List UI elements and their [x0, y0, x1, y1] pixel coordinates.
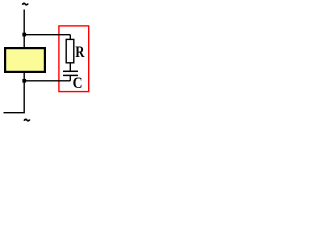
svg-text:C: C	[73, 75, 83, 92]
background	[0, 0, 93, 129]
wire: capacitor bottom lead	[69, 76, 71, 81]
resistor R body	[66, 39, 74, 62]
AC terminal tilde (top)	[22, 3, 28, 4]
wire: top terminal down to block	[23, 10, 25, 49]
svg-text:R: R	[75, 44, 85, 61]
wire: lower horizontal from junction to capacitor	[24, 80, 70, 82]
wire: resistor top lead	[69, 35, 71, 40]
node: lower junction dot	[22, 79, 26, 83]
wire: resistor bottom lead	[69, 63, 71, 71]
red highlight box around RC	[59, 26, 89, 92]
node: upper junction dot	[22, 33, 26, 37]
component block (yellow box)	[5, 48, 45, 72]
wire: block bottom down and left to bottom terminal	[4, 72, 25, 113]
capacitor C top plate	[63, 70, 78, 72]
capacitor C bottom plate	[63, 74, 78, 76]
AC terminal tilde (bottom)	[24, 119, 30, 120]
wire: upper horizontal to resistor	[24, 34, 70, 36]
